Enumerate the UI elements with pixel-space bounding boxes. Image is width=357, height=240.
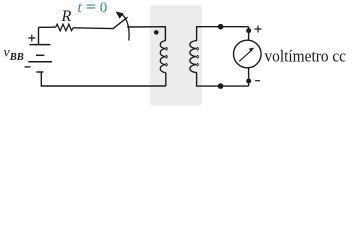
wire switch to primary top corner (127, 27, 165, 41)
svg-text:vBB: vBB (4, 46, 24, 64)
switch blade (113, 17, 128, 29)
voltmeter - sign (255, 80, 260, 82)
svg-text:R: R (61, 8, 72, 25)
wire resistor to switch pivot (73, 27, 113, 30)
primary coil L1 (160, 41, 166, 73)
core shading band (150, 5, 203, 106)
voltmeter + sign (255, 26, 262, 33)
battery + sign (28, 35, 35, 42)
terminal dot top (218, 24, 224, 30)
primary bottom lead (165, 73, 167, 86)
secondary bottom lead (197, 73, 249, 87)
primary coil loop crossings (166, 47, 168, 66)
switch motion arc with arrowhead (122, 14, 129, 41)
terminal dot bottom (218, 83, 224, 89)
voltmeter terminal dot top (246, 28, 251, 33)
voltmeter bottom stub (248, 68, 250, 86)
svg-text:voltímetro cc: voltímetro cc (265, 47, 347, 66)
wire top-left from battery to resistor (39, 27, 56, 44)
primary winding dot (154, 30, 159, 35)
secondary coil loop crossings (197, 47, 199, 66)
voltmeter M1 body (234, 40, 262, 68)
voltmeter needle (239, 51, 251, 62)
voltmeter top stub (248, 27, 250, 41)
voltmeter terminal dot bottom (246, 79, 251, 84)
battery - sign (25, 66, 31, 68)
secondary top lead (197, 27, 249, 41)
battery vBB plates (30, 44, 51, 46)
secondary coil L2 (190, 41, 197, 73)
resistor R (56, 24, 74, 31)
bottom wire back to battery (41, 72, 166, 86)
